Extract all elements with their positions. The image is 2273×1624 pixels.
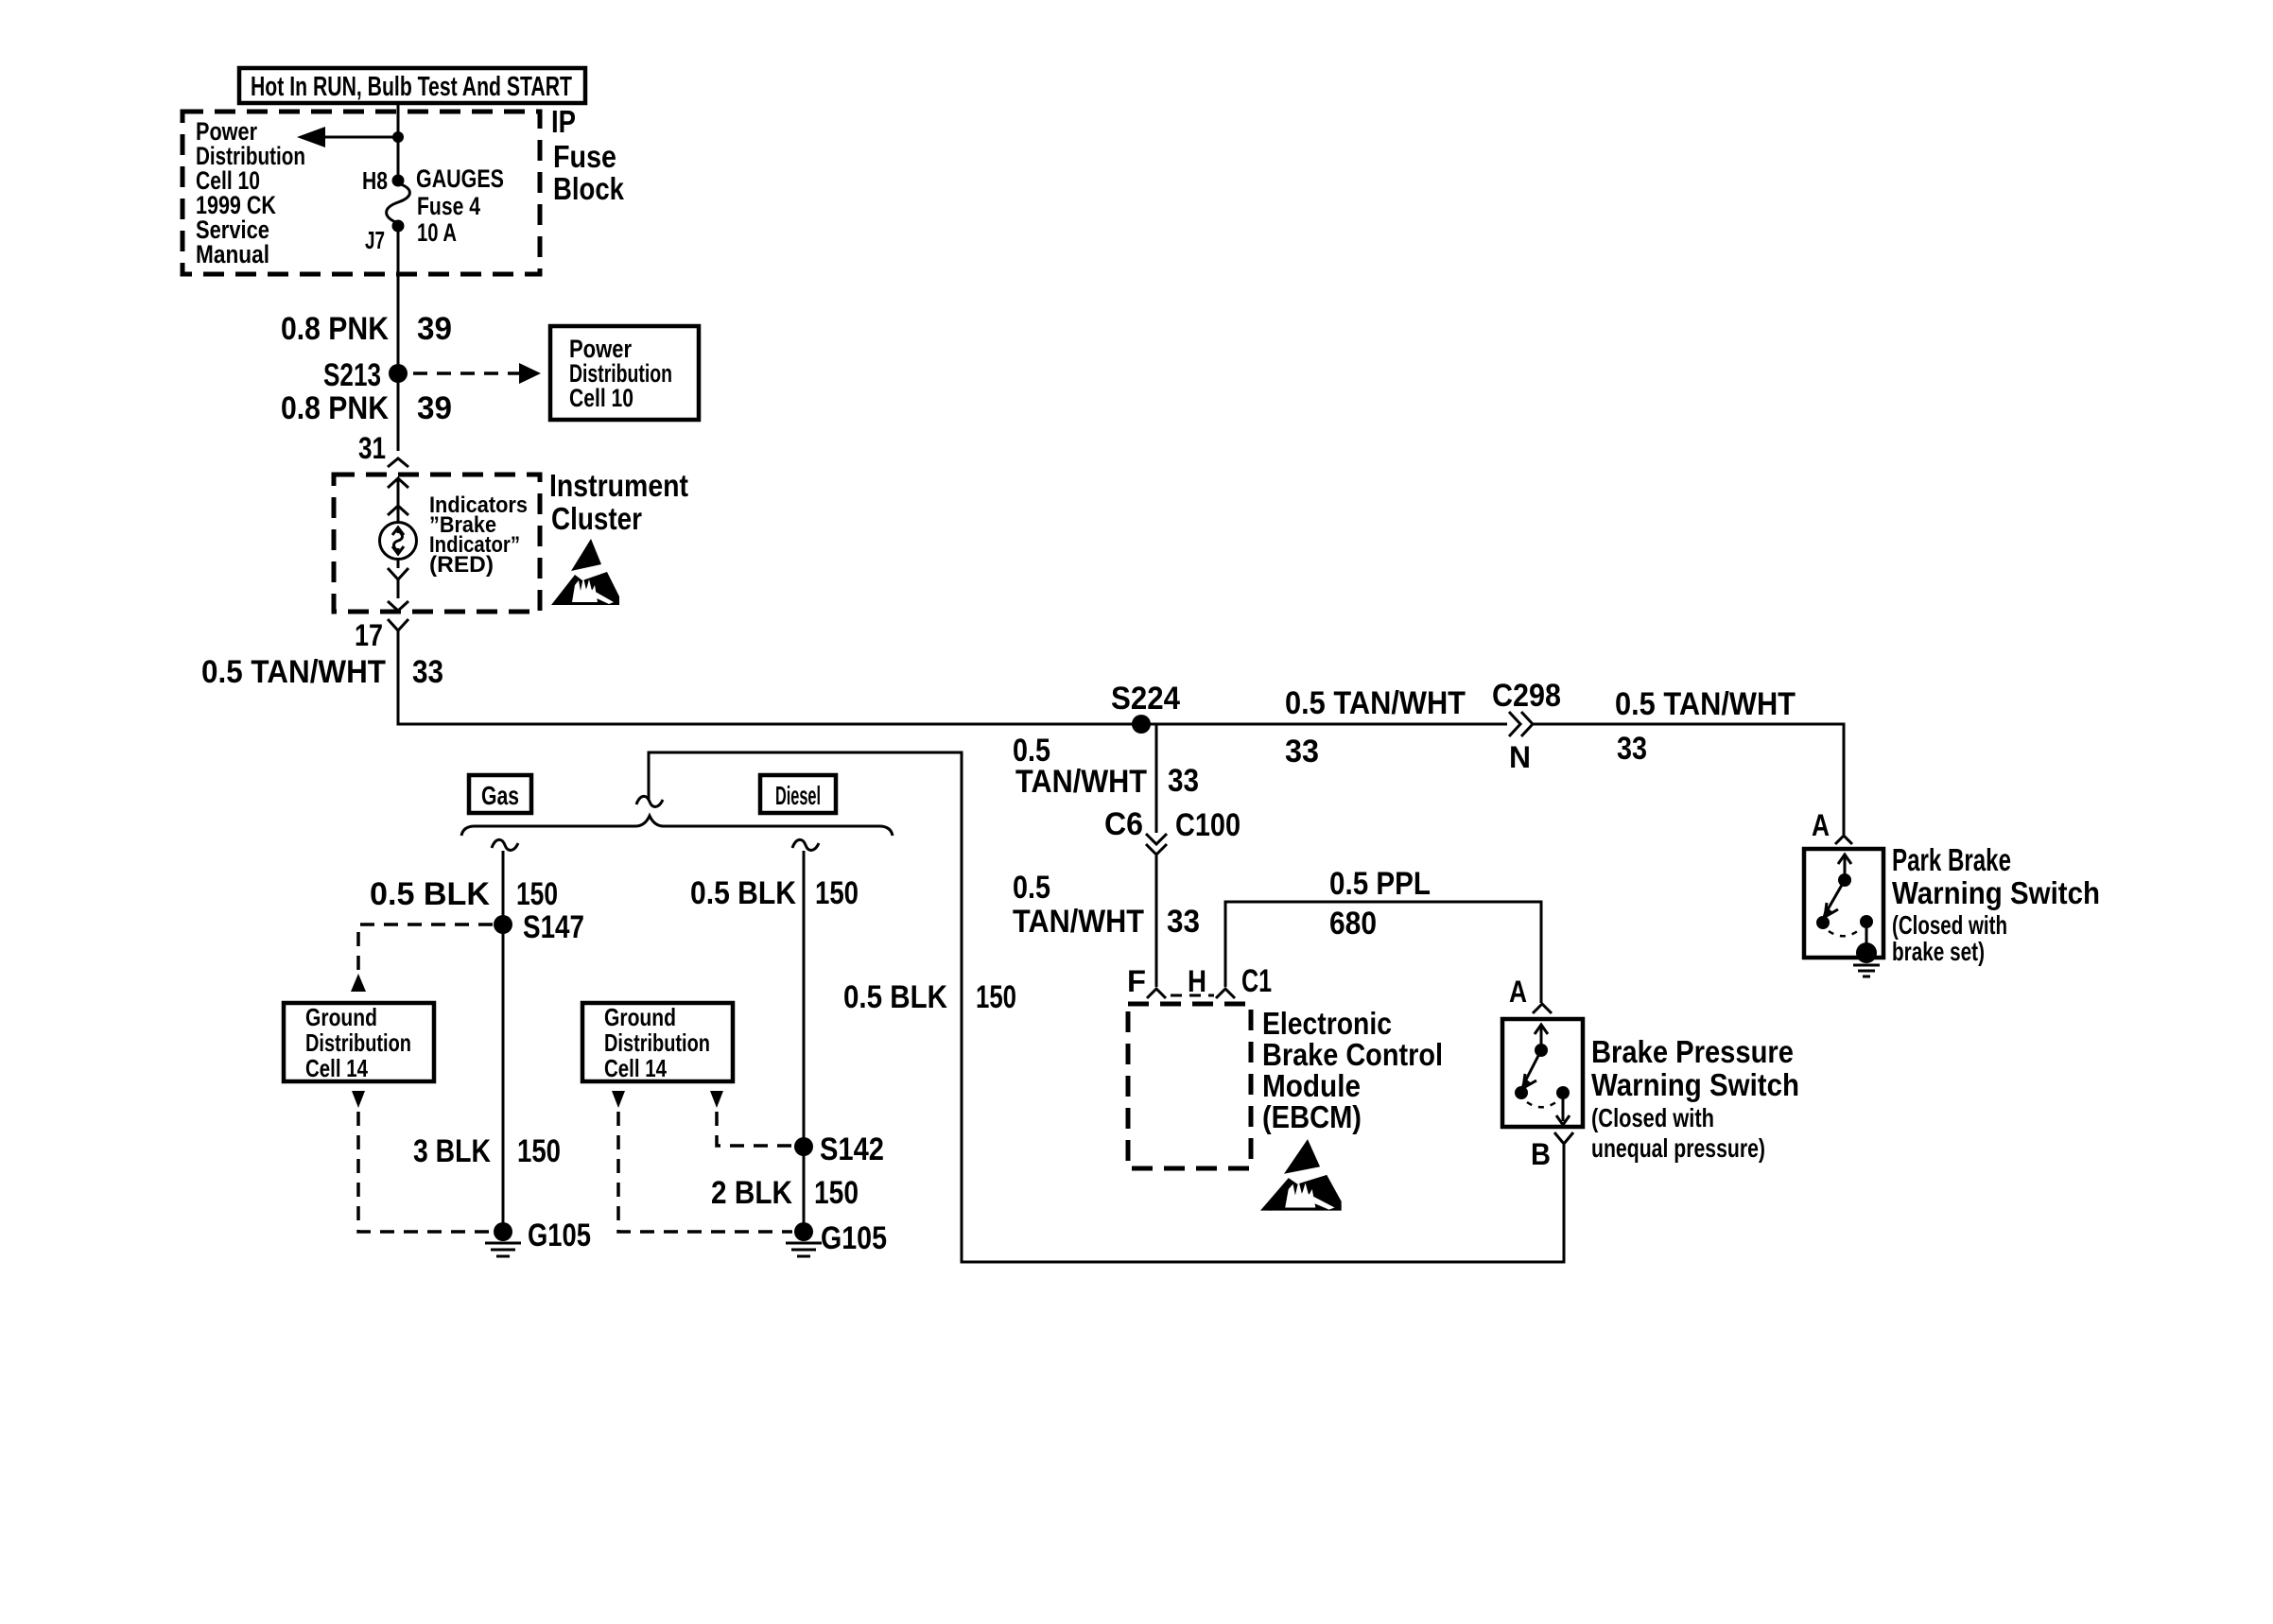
wire break squiggle <box>636 796 663 806</box>
svg-text:680: 680 <box>1329 906 1377 942</box>
svg-text:Electronic: Electronic <box>1262 1006 1392 1041</box>
svg-text:33: 33 <box>1168 763 1199 799</box>
brake indicator bulb <box>380 523 417 560</box>
park brake warning switch box <box>1804 849 1883 958</box>
connector pins inside cluster top <box>388 478 408 505</box>
svg-text:0.5 BLK: 0.5 BLK <box>843 979 947 1015</box>
wire from switch B down, left and up to gas/diesel branch <box>649 752 1564 1262</box>
svg-text:S147: S147 <box>523 909 584 945</box>
svg-text:(RED): (RED) <box>429 552 494 578</box>
svg-text:Fuse: Fuse <box>553 139 616 174</box>
brake pressure switch labels <box>1591 1034 1799 1163</box>
svg-text:Warning Switch: Warning Switch <box>1892 875 2100 910</box>
Gas option box <box>469 775 531 813</box>
svg-text:(Closed with: (Closed with <box>1591 1103 1714 1132</box>
svg-text:Module: Module <box>1262 1068 1361 1103</box>
svg-text:Hot In RUN, Bulb Test And STAR: Hot In RUN, Bulb Test And START <box>251 72 572 102</box>
wire label 0.5 TAN/WHT 33 to F <box>1013 870 1200 940</box>
svg-text:S213: S213 <box>323 357 381 393</box>
connector C6 C100 <box>1104 806 1241 855</box>
connector below cluster <box>388 619 408 631</box>
wire label 0.8 PNK 39 <box>281 390 452 426</box>
dashed arrow S213 to Power Distribution <box>413 363 541 384</box>
svg-text:39: 39 <box>417 390 452 426</box>
svg-text:TAN/WHT: TAN/WHT <box>1013 904 1144 940</box>
svg-text:Warning Switch: Warning Switch <box>1591 1067 1799 1102</box>
ESD symbol at EBCM <box>1260 1139 1342 1211</box>
fuse GAUGES Fuse 4 10 A <box>387 175 410 233</box>
svg-text:C298: C298 <box>1492 678 1561 714</box>
svg-text:B: B <box>1531 1137 1551 1171</box>
svg-text:0.5: 0.5 <box>1013 870 1050 906</box>
svg-text:0.5 PPL: 0.5 PPL <box>1329 866 1431 902</box>
svg-text:Gas: Gas <box>481 781 519 810</box>
splice S147 <box>494 909 584 945</box>
svg-text:Brake Pressure: Brake Pressure <box>1591 1034 1794 1069</box>
wire fuse to S213 <box>397 230 400 365</box>
switch contacts park brake <box>1816 855 1873 945</box>
wire from Hot box down to fuse <box>397 103 400 176</box>
svg-text:3 BLK: 3 BLK <box>413 1133 491 1169</box>
svg-text:N: N <box>1509 740 1531 774</box>
svg-text:S224: S224 <box>1111 681 1180 717</box>
gas ground wire <box>502 851 505 1232</box>
svg-text:G105: G105 <box>528 1218 591 1253</box>
svg-text:Cell 10: Cell 10 <box>569 384 633 412</box>
svg-text:G105: G105 <box>821 1220 887 1256</box>
svg-text:0.5 TAN/WHT: 0.5 TAN/WHT <box>1615 686 1796 722</box>
wire EBCM pin H to brake pressure switch 0.5 PPL <box>1225 902 1541 1003</box>
wire label 0.5 PPL 680 <box>1329 866 1431 942</box>
svg-text:GAUGES: GAUGES <box>416 164 504 193</box>
svg-text:0.5 TAN/WHT: 0.5 TAN/WHT <box>201 654 386 690</box>
svg-text:Park Brake: Park Brake <box>1892 842 2011 877</box>
svg-text:33: 33 <box>1285 734 1319 769</box>
Power Distribution Cell 10 box <box>550 326 699 420</box>
wire label 0.5 TAN/WHT 33 drop <box>1013 733 1199 800</box>
svg-text:10 A: 10 A <box>417 218 457 247</box>
svg-text:Diesel: Diesel <box>775 781 821 810</box>
park brake switch labels <box>1892 842 2100 966</box>
splice S213 <box>323 357 408 393</box>
svg-text:0.8 PNK: 0.8 PNK <box>281 390 389 426</box>
Instrument Cluster dashed box <box>334 475 540 612</box>
svg-text:0.5 TAN/WHT: 0.5 TAN/WHT <box>1285 685 1466 721</box>
brace gas/diesel options <box>461 816 893 836</box>
arrows below box 2 <box>612 1091 625 1108</box>
ground at park brake switch <box>1853 942 1880 976</box>
wire label 0.5 BLK 150 <box>843 979 1016 1015</box>
fuse value label <box>416 164 504 247</box>
wire label 0.5 BLK 150 diesel <box>690 875 859 911</box>
svg-text:TAN/WHT: TAN/WHT <box>1015 764 1147 800</box>
svg-text:Cell 14: Cell 14 <box>604 1054 667 1082</box>
brake pressure switch pin B <box>1531 1132 1573 1171</box>
wire label 0.5 TAN/WHT 33 <box>201 654 443 690</box>
svg-text:Instrument: Instrument <box>549 468 688 503</box>
svg-text:A: A <box>1812 808 1830 842</box>
svg-text:IP: IP <box>551 104 576 139</box>
arrow below box 1 <box>352 1091 365 1108</box>
svg-text:Ground: Ground <box>305 1003 377 1031</box>
wire label 2 BLK 150 <box>711 1175 859 1211</box>
wire S213 down <box>397 383 400 451</box>
wire label 0.8 PNK 39 <box>281 311 452 347</box>
svg-text:150: 150 <box>517 1133 561 1169</box>
svg-text:150: 150 <box>516 876 558 912</box>
EBCM pin F <box>1127 964 1166 998</box>
wire C100 to EBCM pin F <box>1155 855 1158 987</box>
wire C298 to park brake switch <box>1534 724 1844 835</box>
note: Power Distribution Cell 10 1999 CK Service Manual <box>196 117 305 268</box>
svg-text:33: 33 <box>1617 731 1647 767</box>
title Instrument Cluster <box>549 468 688 536</box>
svg-text:0.8 PNK: 0.8 PNK <box>281 311 389 347</box>
svg-text:Cluster: Cluster <box>551 501 642 536</box>
gas wire break squiggle <box>492 839 518 850</box>
dashed link S147 to ground distribution <box>351 924 493 992</box>
svg-text:(Closed with: (Closed with <box>1892 910 2007 940</box>
wire label 0.5 BLK 150 gas <box>370 876 558 912</box>
ESD symbol at instrument cluster <box>551 539 619 605</box>
brake pressure warning switch box <box>1502 1019 1583 1127</box>
svg-text:Distribution: Distribution <box>305 1028 411 1057</box>
wire <box>388 506 408 523</box>
bulb label Indicators Brake Indicator (RED) <box>429 492 528 578</box>
diesel ground wire <box>803 851 806 1232</box>
svg-text:Manual: Manual <box>196 240 269 268</box>
svg-text:unequal pressure): unequal pressure) <box>1591 1133 1765 1163</box>
svg-text:31: 31 <box>358 431 386 465</box>
wire S224 drop <box>1155 724 1158 833</box>
connector chevron above instrument cluster <box>388 458 408 467</box>
svg-text:0.5 BLK: 0.5 BLK <box>690 875 796 911</box>
svg-text:0.5 BLK: 0.5 BLK <box>370 876 490 912</box>
EBCM dashed box <box>1128 1004 1251 1168</box>
switch contacts brake pressure <box>1515 1025 1570 1125</box>
wire arrow branch to power distribution <box>297 127 404 147</box>
dashed link box 2 to S142 <box>717 1112 794 1146</box>
svg-text:Fuse 4: Fuse 4 <box>417 192 480 220</box>
svg-text:150: 150 <box>815 875 859 911</box>
Diesel option box <box>760 775 836 813</box>
IP Fuse Block title <box>551 104 625 206</box>
svg-text:C100: C100 <box>1175 807 1241 843</box>
power source label box: Hot In RUN, Bulb Test And START <box>239 68 585 103</box>
svg-text:Block: Block <box>553 171 625 206</box>
svg-text:(EBCM): (EBCM) <box>1262 1099 1362 1134</box>
wire label 0.5 TAN/WHT 33 after S224 <box>1285 685 1466 769</box>
dashed link box 2 to G105 diesel <box>618 1112 792 1232</box>
svg-text:150: 150 <box>976 979 1016 1015</box>
svg-text:Brake Control: Brake Control <box>1262 1037 1443 1072</box>
Ground Distribution Cell 14 box 1 <box>284 1003 434 1082</box>
svg-text:J7: J7 <box>365 226 385 254</box>
svg-text:S142: S142 <box>820 1132 884 1167</box>
wire cluster down and right to C298 <box>398 631 1507 724</box>
EBCM title <box>1262 1006 1443 1134</box>
park brake switch pin A <box>1812 808 1852 844</box>
wire bulb down <box>388 559 408 598</box>
svg-text:17: 17 <box>355 618 383 652</box>
splice S224 <box>1111 681 1180 734</box>
ground G105 diesel <box>786 1220 887 1256</box>
connector C1 dashes <box>1171 994 1214 997</box>
connector at cluster bottom edge <box>388 601 408 611</box>
svg-text:33: 33 <box>412 654 443 690</box>
dashed link box 1 to G105 <box>358 1112 491 1232</box>
diesel wire break squiggle <box>792 839 819 850</box>
svg-text:150: 150 <box>814 1175 859 1211</box>
svg-text:H: H <box>1188 964 1206 998</box>
svg-text:39: 39 <box>417 311 452 347</box>
wire label 0.5 TAN/WHT 33 after C298 <box>1615 686 1796 767</box>
svg-text:Distribution: Distribution <box>604 1028 710 1057</box>
svg-text:Cell 14: Cell 14 <box>305 1054 368 1082</box>
svg-text:Ground: Ground <box>604 1003 676 1031</box>
brake pressure switch pin A <box>1509 975 1552 1013</box>
IP Fuse Block dashed box <box>182 112 540 274</box>
ground G105 gas <box>485 1218 591 1256</box>
svg-text:brake set): brake set) <box>1892 937 1985 966</box>
splice S142 <box>794 1132 884 1167</box>
Ground Distribution Cell 14 box 2 <box>582 1003 733 1082</box>
svg-text:H8: H8 <box>362 166 388 195</box>
EBCM pin H <box>1188 964 1235 998</box>
wire label 3 BLK 150 <box>413 1133 561 1169</box>
svg-text:2 BLK: 2 BLK <box>711 1175 792 1211</box>
svg-text:C1: C1 <box>1241 963 1272 999</box>
svg-text:33: 33 <box>1167 904 1200 940</box>
svg-text:A: A <box>1509 975 1527 1009</box>
connector C298 pin N <box>1492 678 1561 774</box>
svg-text:C6: C6 <box>1104 806 1143 842</box>
svg-text:F: F <box>1127 964 1146 998</box>
